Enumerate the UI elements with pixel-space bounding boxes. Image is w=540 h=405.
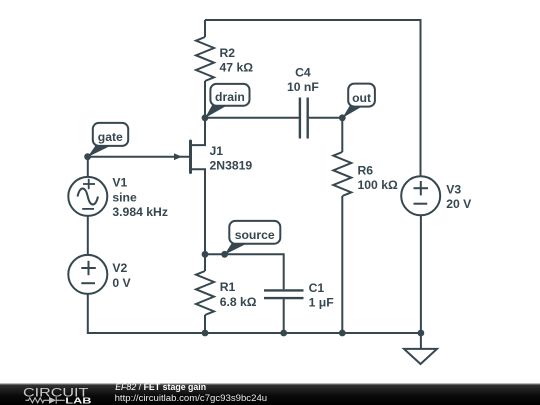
V3 plus sign	[414, 181, 429, 195]
svg-text:J1: J1	[210, 144, 224, 158]
svg-text:1 μF: 1 μF	[309, 296, 334, 310]
svg-text:http://circuitlab.com/c7gc93s9: http://circuitlab.com/c7gc93s9bc24u	[115, 393, 268, 404]
V2 minus sign	[81, 282, 95, 284]
svg-text:V3: V3	[446, 182, 461, 196]
ground	[404, 349, 437, 364]
node label gate tail	[88, 145, 113, 157]
node label source	[229, 221, 280, 244]
node C1 bottom dot	[280, 330, 287, 337]
node R1 bottom dot	[202, 330, 209, 337]
wire V2 to bottom rail	[88, 294, 205, 333]
wire bottom rail	[205, 332, 421, 334]
node source junction dot	[202, 251, 209, 258]
node drain dot	[202, 114, 209, 121]
V1 plus sign	[83, 179, 95, 189]
footer bar top line	[0, 383, 540, 384]
svg-text:10 nF: 10 nF	[287, 80, 319, 94]
voltage source V1 circle	[68, 177, 107, 216]
node gate dot	[84, 153, 91, 160]
resistor R1	[196, 271, 214, 315]
node label drain	[210, 84, 249, 106]
node label out	[348, 84, 375, 107]
V2 plus sign	[81, 261, 96, 275]
node source label anchor dot	[221, 251, 228, 258]
wire C4 to out node	[309, 117, 343, 119]
transistor J1 source lead	[191, 169, 205, 254]
svg-text:sine: sine	[112, 190, 137, 204]
svg-text:V1: V1	[112, 176, 127, 190]
svg-text:3.984 kHz: 3.984 kHz	[112, 205, 168, 219]
voltage source V2 circle	[68, 255, 107, 294]
svg-text:6.8 kΩ: 6.8 kΩ	[220, 295, 257, 309]
svg-text:100 kΩ: 100 kΩ	[358, 178, 398, 192]
svg-text:R1: R1	[220, 280, 236, 294]
logo resistor-diode glyph	[26, 397, 65, 404]
wire ground lead	[420, 333, 422, 349]
node R6 bottom dot	[339, 330, 346, 337]
wire source node to C1	[205, 254, 284, 289]
wire C1 bottom lead	[283, 299, 285, 333]
svg-text:EF82 / FET stage gain: EF82 / FET stage gain	[115, 382, 206, 392]
wire top rail	[205, 19, 421, 21]
svg-text:C4: C4	[295, 66, 311, 80]
wire V3 bottom to rail	[420, 215, 422, 333]
svg-text:2N3819: 2N3819	[210, 159, 253, 173]
V1 sine wave	[78, 188, 99, 204]
svg-text:C1: C1	[309, 281, 325, 295]
svg-text:source: source	[235, 228, 275, 242]
svg-text:R2: R2	[220, 46, 236, 60]
svg-text:out: out	[352, 91, 371, 105]
svg-text:0 V: 0 V	[112, 276, 131, 290]
svg-text:V2: V2	[112, 261, 127, 275]
svg-text:47 kΩ: 47 kΩ	[220, 61, 254, 75]
voltage source V3 circle	[401, 176, 440, 215]
wire V1 to V2	[87, 216, 89, 255]
capacitor C4	[300, 98, 308, 139]
transistor J1 channel bar	[189, 141, 192, 173]
wire gate	[88, 156, 189, 158]
resistor R2	[196, 37, 214, 81]
node ground junction dot	[418, 330, 425, 337]
V1 minus sign	[82, 208, 94, 210]
transistor J1 drain lead	[191, 118, 205, 145]
resistor R6	[333, 152, 351, 196]
wire out node to R6	[341, 118, 343, 152]
svg-text:drain: drain	[215, 90, 245, 104]
node label out tail	[342, 106, 363, 118]
wire R2 bottom lead to drain node	[204, 81, 206, 118]
wire source node to R1	[204, 254, 206, 271]
svg-text:20 V: 20 V	[446, 197, 472, 211]
wire R2 top lead	[204, 20, 206, 37]
wire gate node to V1	[87, 157, 89, 177]
wire drain node to C4	[205, 117, 299, 119]
svg-text:LAB: LAB	[65, 395, 91, 405]
wire right rail upper	[420, 19, 422, 177]
V3 minus sign	[414, 203, 428, 205]
node label drain tail	[205, 104, 229, 118]
node out dot	[339, 114, 346, 121]
wire R1 bottom lead	[204, 315, 206, 333]
svg-text:gate: gate	[98, 130, 123, 144]
wire R6 bottom lead	[341, 196, 343, 333]
capacitor C1	[264, 290, 304, 298]
gate arrowhead	[174, 153, 182, 160]
node label gate	[93, 123, 128, 146]
svg-text:R6: R6	[358, 163, 374, 177]
node label source tail	[225, 243, 249, 255]
